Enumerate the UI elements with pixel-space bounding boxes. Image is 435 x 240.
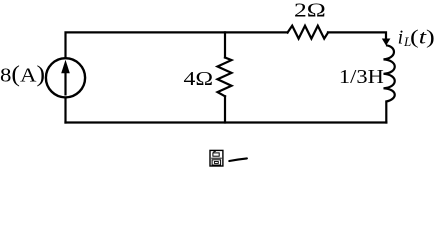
svg-text:(t): (t): [410, 27, 435, 49]
svg-text:2Ω: 2Ω: [294, 0, 326, 22]
wire bottom horizontal: [66, 121, 387, 123]
svg-text:i: i: [398, 27, 404, 49]
inductor L1 coil: [384, 45, 395, 101]
wire right branch bottom: [385, 102, 387, 123]
iL arrow down: [382, 39, 391, 46]
label iL(t): [398, 27, 435, 49]
svg-text:4Ω: 4Ω: [184, 68, 214, 90]
wire left branch bottom: [64, 99, 66, 123]
resistor R1 4ohm: [218, 58, 232, 97]
wire middle branch top: [224, 32, 226, 57]
caption glyph one: [229, 158, 247, 161]
svg-text:8(A): 8(A): [0, 61, 45, 86]
current source I1 circle: [46, 58, 85, 97]
wire top-left horizontal: [66, 32, 288, 57]
wire top-right horizontal: [328, 32, 386, 39]
svg-text:1/3H: 1/3H: [339, 66, 384, 88]
current source arrow: [61, 60, 70, 96]
wire middle branch bottom: [224, 96, 226, 122]
caption glyph tu (figure): [210, 150, 223, 166]
resistor R2 2ohm: [288, 26, 329, 39]
